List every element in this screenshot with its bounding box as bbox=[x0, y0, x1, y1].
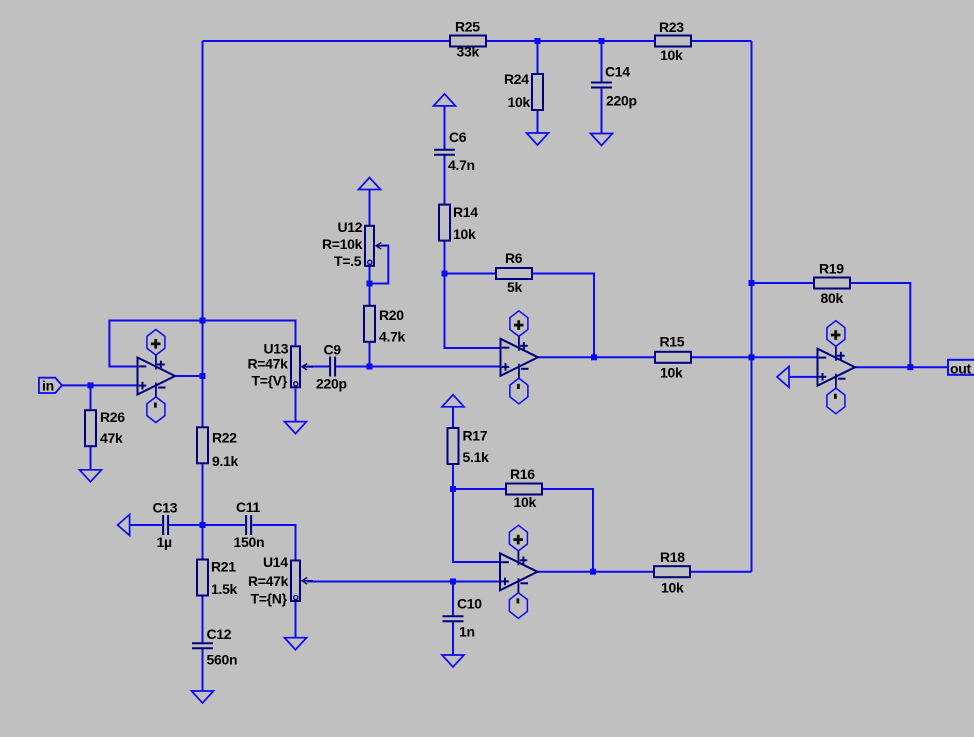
junction node R19 / U4 output / out bbox=[907, 364, 913, 370]
capacitor C9 plates bbox=[330, 357, 335, 377]
wire left vertical bus through R22 R21 down to C12 bbox=[202, 41, 204, 643]
svg-text:5.1k: 5.1k bbox=[463, 449, 490, 465]
svg-text:R17: R17 bbox=[463, 427, 488, 443]
svg-text:C14: C14 bbox=[605, 63, 630, 79]
wire supply arrow to C6 top plate bbox=[444, 106, 446, 150]
svg-text:150n: 150n bbox=[234, 534, 265, 550]
svg-text:1µ: 1µ bbox=[157, 534, 172, 550]
svg-text:R19: R19 bbox=[819, 260, 844, 276]
wire left ground to C13 left plate bbox=[130, 524, 163, 526]
wire C13 right plate to C11 left plate bbox=[169, 524, 245, 526]
svg-text:R15: R15 bbox=[660, 333, 685, 349]
junction node top bus / R24 bbox=[535, 38, 541, 44]
ground below U14 bbox=[285, 638, 307, 650]
svg-text:10k: 10k bbox=[660, 364, 683, 380]
svg-text:C10: C10 bbox=[457, 595, 482, 611]
junction node R22 / C13 / C11 / R21 bbox=[200, 522, 206, 528]
wire in port to U1 non-inverting input bbox=[63, 384, 138, 386]
svg-text:C11: C11 bbox=[236, 499, 261, 515]
svg-text:R18: R18 bbox=[660, 549, 685, 565]
resistor R15 body bbox=[655, 352, 691, 363]
resistor R25 body bbox=[450, 36, 486, 47]
wire right bus through R19 then down to U4 output node bbox=[752, 283, 911, 367]
ground at U4 non-inverting input bbox=[777, 366, 789, 387]
svg-text:T=.5: T=.5 bbox=[334, 253, 362, 269]
op-amp U2 (middle) bbox=[501, 311, 539, 404]
svg-text:R=47k: R=47k bbox=[248, 573, 289, 589]
svg-text:10k: 10k bbox=[660, 47, 683, 63]
supply flag above C6 bbox=[434, 94, 456, 106]
wire U1 output to left bus bbox=[175, 375, 203, 377]
svg-text:R20: R20 bbox=[379, 307, 404, 323]
wire U13 wiper to C9 left plate bbox=[302, 366, 331, 368]
svg-text:R16: R16 bbox=[510, 466, 535, 482]
wire U12 wiper tail bbox=[370, 246, 389, 284]
junction node feedback row / left bus bbox=[200, 318, 206, 324]
resistor R17 body bbox=[448, 428, 459, 464]
junction node in port / R26 bbox=[88, 382, 94, 388]
svg-text:U12: U12 bbox=[338, 219, 363, 235]
svg-text:R6: R6 bbox=[505, 250, 523, 266]
potentiometer U14 body with wiper bbox=[291, 561, 313, 602]
capacitor C11 plates bbox=[246, 515, 251, 535]
wire left opamp feedback loop to U13 top bbox=[109, 321, 295, 367]
port in flag bbox=[39, 378, 62, 393]
capacitor C13 plates bbox=[163, 515, 168, 535]
junction node U3 output / R16 / R18 bbox=[590, 569, 596, 575]
wire top bus from left riser to right riser bbox=[203, 40, 752, 42]
junction node right bus / R19 row bbox=[749, 280, 755, 286]
ground below C10 bbox=[442, 655, 464, 667]
svg-text:220p: 220p bbox=[316, 375, 347, 391]
svg-text:T={N}: T={N} bbox=[251, 590, 288, 606]
svg-text:9.1k: 9.1k bbox=[212, 453, 239, 469]
wire U13 bottom to ground bbox=[295, 388, 297, 421]
capacitor C14 plates bbox=[591, 83, 612, 88]
junction node U2 output / R6 / R15 bbox=[591, 354, 597, 360]
wire C14 branch from top bus to top plate bbox=[601, 41, 603, 83]
op-amp U4 (right) bbox=[818, 321, 856, 414]
wire C10 bottom plate to ground bbox=[452, 621, 454, 655]
ground below C14 bbox=[591, 134, 613, 146]
svg-text:10k: 10k bbox=[453, 226, 476, 242]
wire right vertical bus bbox=[751, 41, 753, 572]
wire R24 branch from top bus to ground bbox=[537, 41, 539, 133]
wire C12 bottom to ground bbox=[202, 648, 204, 691]
svg-text:4.7n: 4.7n bbox=[448, 157, 475, 173]
svg-text:R14: R14 bbox=[453, 204, 478, 220]
svg-text:80k: 80k bbox=[821, 290, 844, 306]
svg-text:in: in bbox=[42, 377, 54, 393]
wire U14 bottom to ground bbox=[295, 602, 297, 638]
svg-text:R21: R21 bbox=[211, 558, 236, 574]
ground below U13 bbox=[285, 422, 307, 434]
resistor R21 body bbox=[197, 560, 208, 596]
wire U3 output row through R18 to right bus bbox=[537, 571, 751, 573]
op-amp U1 (left) bbox=[138, 330, 176, 423]
wire U2 output row through R15 to right bus bbox=[538, 356, 752, 358]
svg-text:C13: C13 bbox=[153, 499, 178, 515]
svg-text:1n: 1n bbox=[459, 623, 475, 639]
svg-text:220p: 220p bbox=[606, 92, 637, 108]
svg-text:5k: 5k bbox=[507, 279, 522, 295]
junction node wiper row / C10 bbox=[450, 579, 456, 585]
svg-text:R=10k: R=10k bbox=[322, 236, 363, 252]
wire R17/R16 node through R16 then down to U3 output node bbox=[453, 489, 593, 572]
junction node U12-R20 / wiper tail bbox=[367, 281, 373, 287]
junction node top bus / C14 bbox=[599, 38, 605, 44]
supply flag above R17 bbox=[442, 395, 464, 407]
svg-text:R26: R26 bbox=[100, 409, 125, 425]
svg-text:C12: C12 bbox=[207, 626, 232, 642]
resistor R18 body bbox=[654, 566, 690, 577]
ground below R26 bbox=[80, 470, 102, 482]
junction node R20 bottom / C9 row bbox=[367, 364, 373, 370]
resistor R24 body bbox=[532, 74, 543, 110]
capacitor C12 plates bbox=[192, 643, 213, 648]
svg-text:47k: 47k bbox=[100, 430, 123, 446]
wire C6 bottom through R14 down then to U2 inverting input bbox=[445, 155, 501, 348]
junction node right bus / R15 / U4 input bbox=[749, 354, 755, 360]
resistor R22 body bbox=[197, 427, 208, 463]
wire C11 right plate to U14 top bbox=[252, 525, 295, 560]
op-amp U3 (bottom) bbox=[500, 525, 538, 618]
supply flag above U12 bbox=[359, 178, 381, 190]
potentiometer U12 body with wiper bbox=[365, 226, 387, 266]
junction node U1 output / left bus bbox=[200, 373, 206, 379]
resistor R14 body bbox=[439, 205, 450, 241]
ground below R24 bbox=[527, 133, 549, 145]
svg-text:C9: C9 bbox=[324, 341, 342, 357]
wire node R14/R6 row through R6 then down to U2 output node bbox=[445, 274, 595, 358]
svg-text:R23: R23 bbox=[659, 19, 684, 35]
ground below C12 bbox=[192, 691, 214, 703]
resistor R16 body bbox=[506, 484, 542, 495]
port out flag bbox=[948, 360, 974, 375]
svg-text:1.5k: 1.5k bbox=[211, 581, 238, 597]
svg-text:U13: U13 bbox=[264, 340, 289, 356]
wire right bus to U4 inverting input bbox=[752, 356, 818, 358]
capacitor C10 plates bbox=[443, 616, 464, 621]
svg-text:10k: 10k bbox=[514, 494, 537, 510]
wire U14 wiper row to U3 non-inverting input bbox=[308, 581, 501, 583]
svg-text:10k: 10k bbox=[661, 579, 684, 595]
wire C9 right plate to U2 non-inverting input bbox=[335, 366, 500, 368]
svg-text:560n: 560n bbox=[207, 651, 238, 667]
wire R26 branch to ground bbox=[90, 385, 92, 469]
wire C10 branch from wiper row bbox=[452, 582, 454, 617]
svg-text:T={V}: T={V} bbox=[252, 372, 288, 388]
resistor R19 body bbox=[814, 278, 850, 289]
svg-text:4.7k: 4.7k bbox=[379, 328, 406, 344]
wire U4 output to out port bbox=[855, 366, 947, 368]
svg-text:R24: R24 bbox=[504, 71, 529, 87]
resistor R6 body bbox=[496, 268, 532, 279]
svg-text:10k: 10k bbox=[508, 94, 531, 110]
capacitor C6 plates bbox=[434, 150, 455, 155]
wire supply arrow through R17 down to U3 inverting input bbox=[453, 407, 500, 562]
wire supply arrow through U12 and R20 down to C9 row bbox=[369, 190, 371, 367]
resistor R23 body bbox=[655, 36, 691, 47]
svg-text:R=47k: R=47k bbox=[248, 355, 289, 371]
svg-text:33k: 33k bbox=[457, 43, 480, 59]
wire left ground to U4 non-inverting input bbox=[789, 376, 818, 378]
svg-text:U14: U14 bbox=[263, 554, 288, 570]
ground left of C13 bbox=[118, 515, 130, 536]
junction node R14 / R6 row bbox=[442, 271, 448, 277]
svg-text:out_: out_ bbox=[950, 361, 974, 377]
potentiometer U13 body with wiper bbox=[291, 346, 313, 387]
resistor R26 body bbox=[85, 410, 96, 446]
svg-text:R22: R22 bbox=[212, 429, 237, 445]
svg-text:R25: R25 bbox=[455, 18, 480, 34]
wire C14 bottom plate to ground bbox=[601, 88, 603, 134]
svg-text:C6: C6 bbox=[449, 129, 467, 145]
resistor R20 body bbox=[364, 306, 375, 342]
junction node R17 / R16 row bbox=[450, 486, 456, 492]
